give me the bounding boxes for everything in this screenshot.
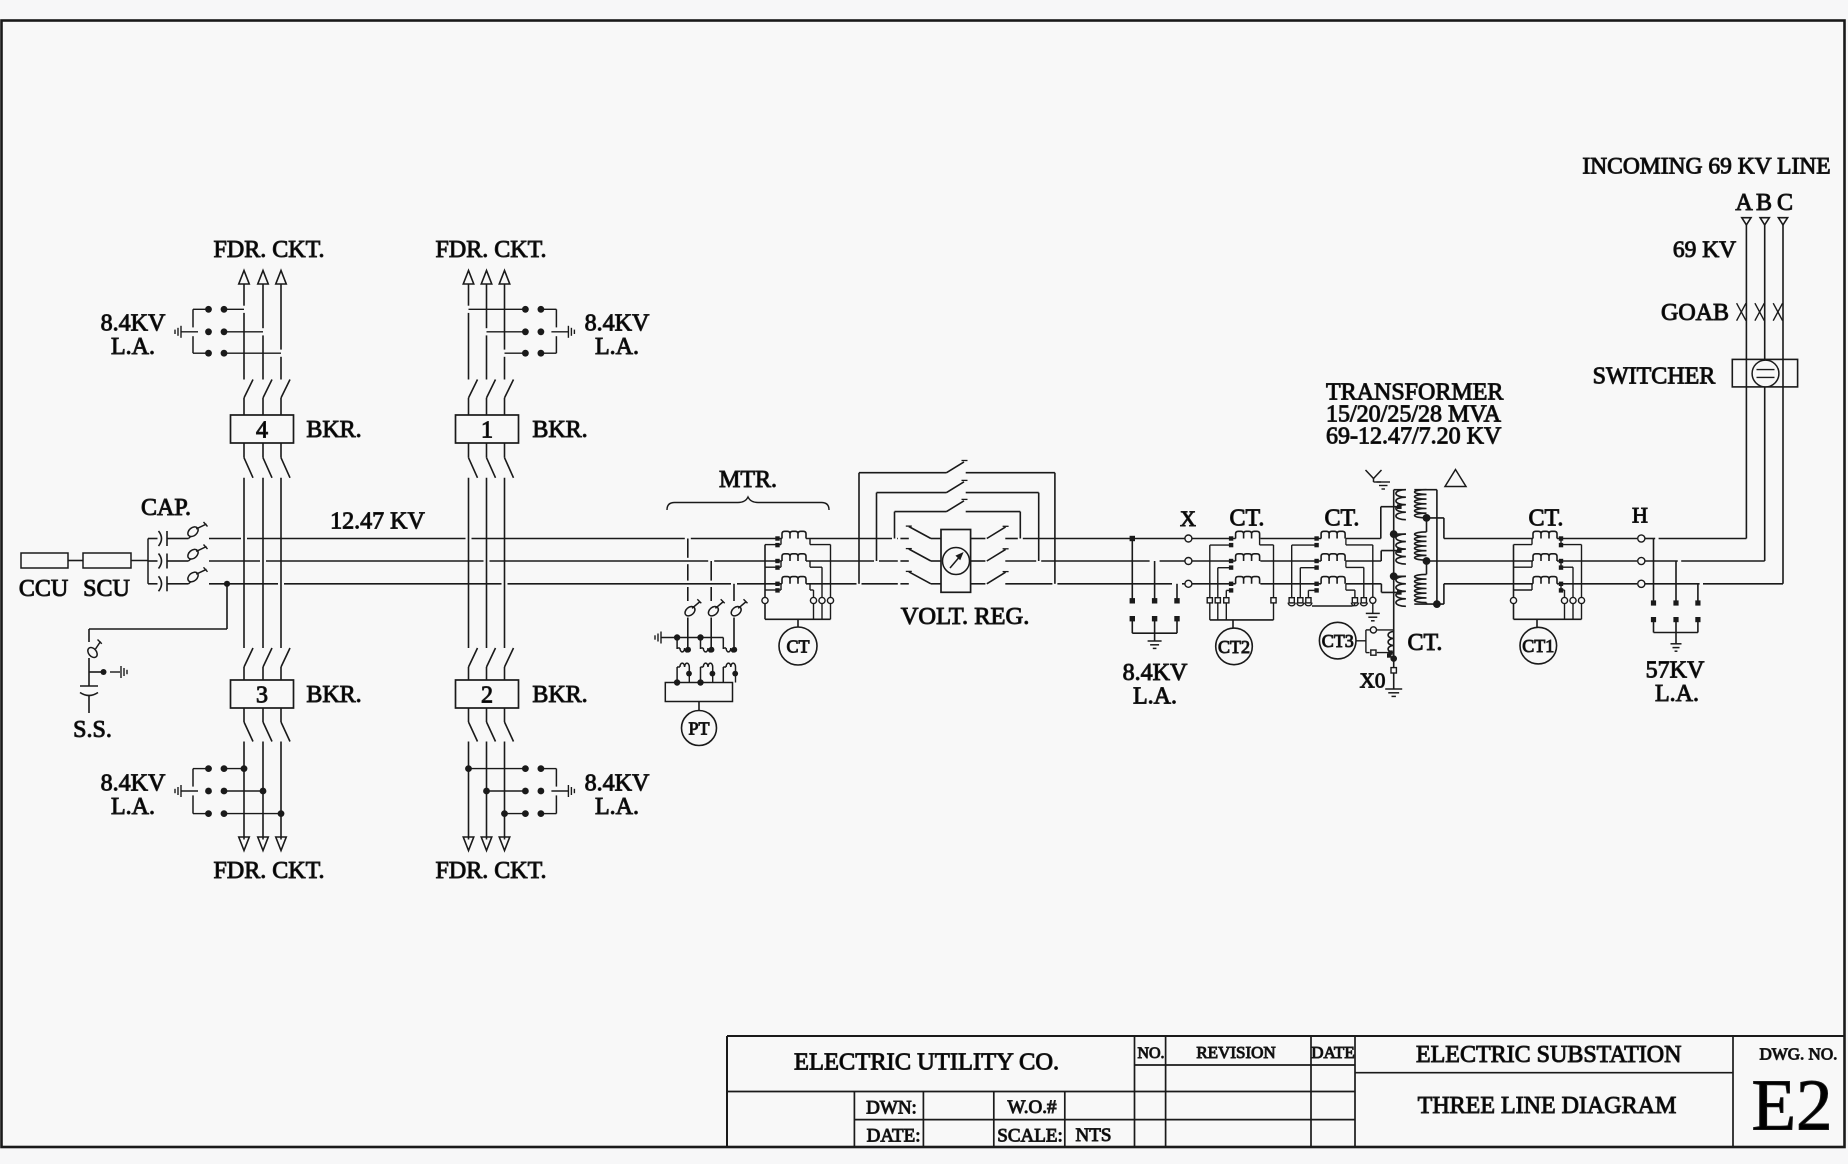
svg-text:ELECTRIC SUBSTATION: ELECTRIC SUBSTATION xyxy=(1416,1042,1681,1068)
svg-text:12.47 KV: 12.47 KV xyxy=(330,509,425,535)
svg-text:VOLT. REG.: VOLT. REG. xyxy=(901,603,1030,630)
svg-text:L.A.: L.A. xyxy=(111,334,155,360)
svg-text:CCU: CCU xyxy=(19,576,68,602)
svg-text:FDR. CKT.: FDR. CKT. xyxy=(436,237,547,263)
svg-text:E2: E2 xyxy=(1751,1065,1832,1146)
svg-text:L.A.: L.A. xyxy=(1133,684,1177,710)
svg-text:BKR.: BKR. xyxy=(306,682,361,708)
svg-text:L.A.: L.A. xyxy=(111,794,155,820)
svg-text:8.4KV: 8.4KV xyxy=(101,771,166,797)
svg-text:S.S.: S.S. xyxy=(73,717,112,743)
svg-text:BKR.: BKR. xyxy=(306,417,361,443)
svg-text:FDR. CKT.: FDR. CKT. xyxy=(436,858,547,884)
svg-text:DWN:: DWN: xyxy=(866,1098,917,1119)
svg-text:CT.: CT. xyxy=(1529,506,1564,532)
svg-text:1: 1 xyxy=(481,418,493,444)
svg-text:CAP.: CAP. xyxy=(141,495,191,521)
svg-text:GOAB: GOAB xyxy=(1661,300,1729,326)
svg-text:INCOMING 69 KV LINE: INCOMING 69 KV LINE xyxy=(1582,154,1830,180)
svg-text:A: A xyxy=(1735,190,1753,216)
svg-text:C: C xyxy=(1777,190,1793,216)
svg-text:FDR. CKT.: FDR. CKT. xyxy=(214,858,325,884)
svg-text:8.4KV: 8.4KV xyxy=(101,311,166,337)
svg-text:8.4KV: 8.4KV xyxy=(1123,660,1188,686)
svg-text:THREE LINE DIAGRAM: THREE LINE DIAGRAM xyxy=(1418,1093,1677,1119)
svg-text:4: 4 xyxy=(256,418,268,444)
svg-text:57KV: 57KV xyxy=(1646,658,1705,684)
svg-text:DATE:: DATE: xyxy=(867,1126,921,1147)
svg-text:CT1: CT1 xyxy=(1522,636,1554,656)
svg-text:SCU: SCU xyxy=(83,576,130,602)
svg-text:MTR.: MTR. xyxy=(719,467,777,493)
svg-text:ELECTRIC UTILITY CO.: ELECTRIC UTILITY CO. xyxy=(794,1049,1059,1076)
svg-text:REVISION: REVISION xyxy=(1196,1043,1275,1062)
svg-text:L.A.: L.A. xyxy=(595,334,639,360)
svg-text:L.A.: L.A. xyxy=(595,794,639,820)
svg-text:L.A.: L.A. xyxy=(1655,681,1699,707)
svg-text:X: X xyxy=(1180,506,1196,531)
svg-text:69 KV: 69 KV xyxy=(1673,237,1736,263)
svg-text:CT3: CT3 xyxy=(1322,631,1354,651)
svg-text:H: H xyxy=(1632,503,1648,528)
svg-text:DWG. NO.: DWG. NO. xyxy=(1759,1045,1837,1064)
svg-text:3: 3 xyxy=(256,683,268,709)
svg-text:CT.: CT. xyxy=(1230,506,1265,532)
svg-text:PT: PT xyxy=(688,719,709,739)
svg-text:FDR. CKT.: FDR. CKT. xyxy=(214,237,325,263)
svg-text:BKR.: BKR. xyxy=(532,417,587,443)
svg-text:CT2: CT2 xyxy=(1218,637,1250,657)
svg-text:SCALE:: SCALE: xyxy=(997,1126,1062,1147)
svg-text:CT.: CT. xyxy=(1408,630,1443,656)
svg-text:2: 2 xyxy=(481,683,493,709)
svg-text:CT: CT xyxy=(786,637,809,657)
svg-text:NO.: NO. xyxy=(1137,1045,1164,1062)
svg-text:SWITCHER: SWITCHER xyxy=(1593,364,1716,390)
svg-text:69-12.47/7.20 KV: 69-12.47/7.20 KV xyxy=(1326,424,1502,450)
svg-text:NTS: NTS xyxy=(1076,1125,1112,1146)
svg-text:DATE: DATE xyxy=(1311,1043,1354,1062)
svg-text:8.4KV: 8.4KV xyxy=(585,771,650,797)
svg-text:BKR.: BKR. xyxy=(532,682,587,708)
svg-text:B: B xyxy=(1756,190,1772,216)
svg-text:X0: X0 xyxy=(1360,669,1386,693)
svg-text:CT.: CT. xyxy=(1325,506,1360,532)
svg-text:8.4KV: 8.4KV xyxy=(585,311,650,337)
svg-text:W.O.#: W.O.# xyxy=(1008,1097,1057,1118)
